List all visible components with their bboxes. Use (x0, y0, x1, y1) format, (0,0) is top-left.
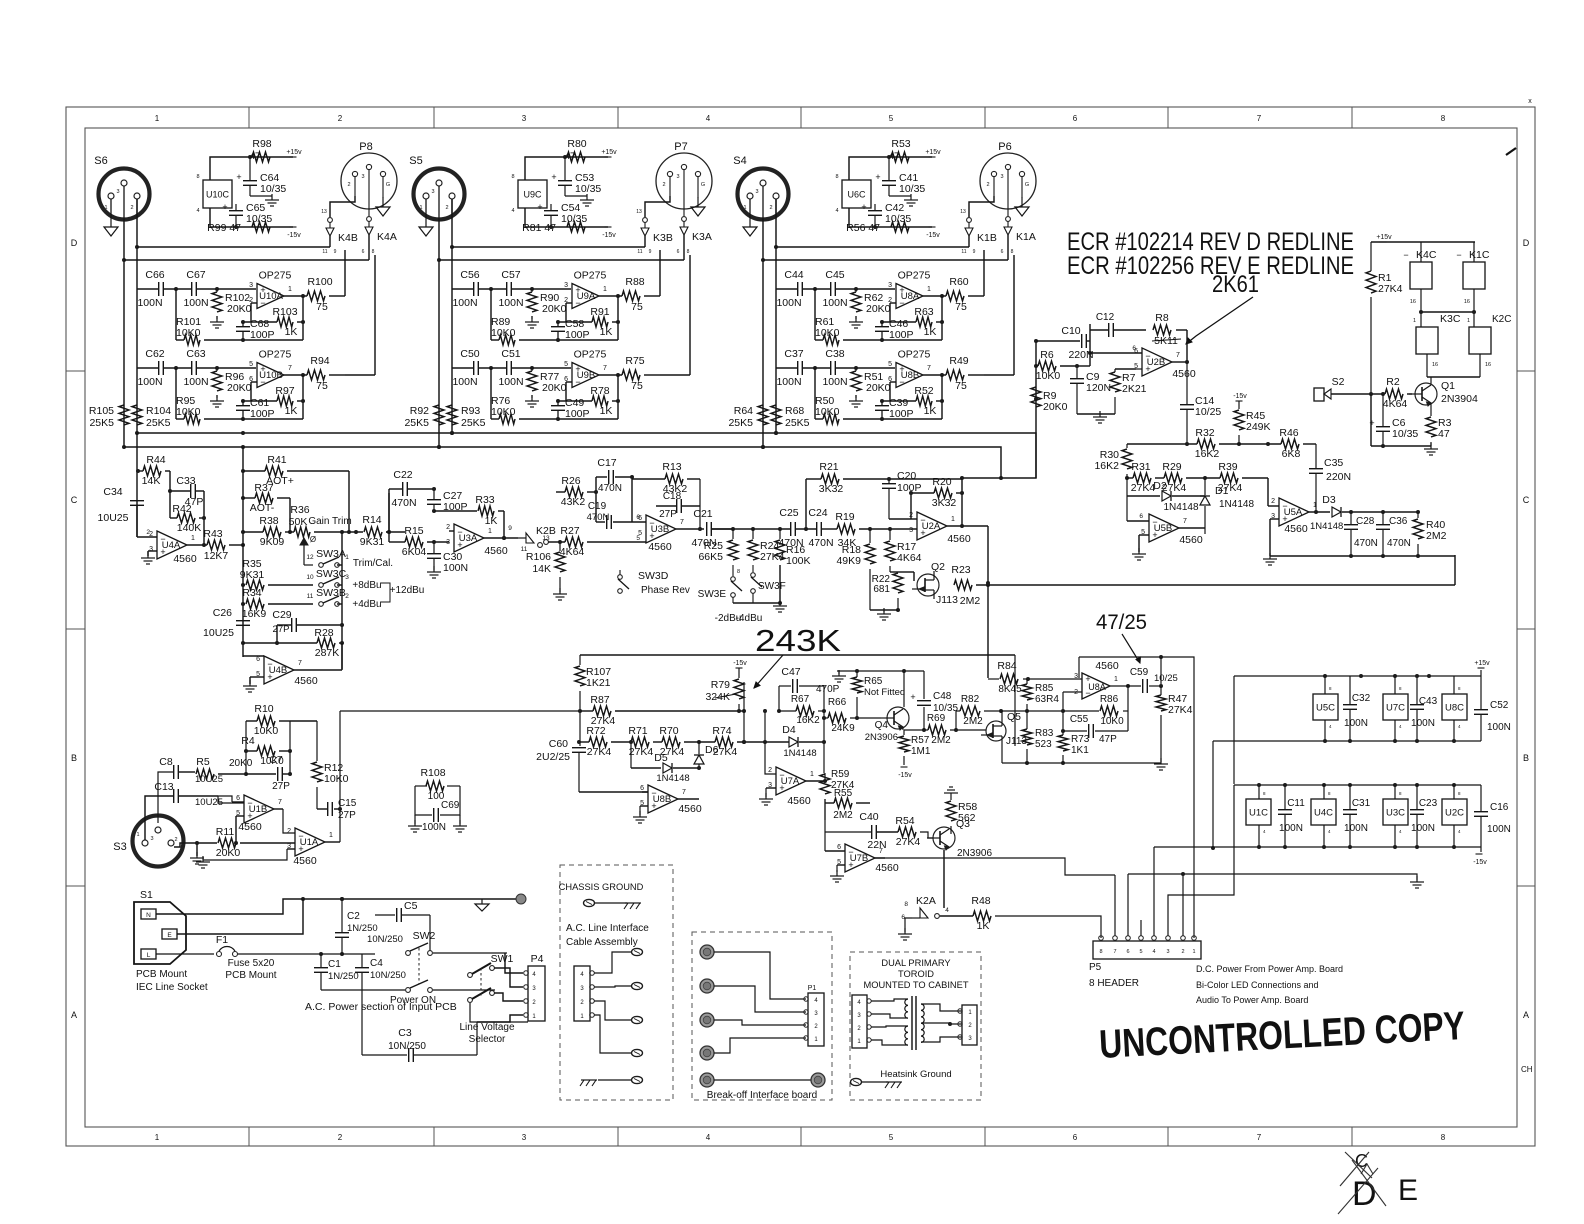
resistor R44 (142, 454, 166, 487)
svg-text:13: 13 (321, 209, 327, 215)
resistor R39 (1218, 461, 1268, 494)
wire (890, 294, 984, 340)
resistor R59 (820, 769, 855, 794)
resistor R64 (728, 405, 768, 429)
wire (1179, 527, 1205, 529)
capacitor C5 (367, 900, 430, 945)
svg-text:1K: 1K (285, 326, 298, 338)
svg-text:6: 6 (640, 785, 644, 792)
resistor R55 (0, 0, 1, 1)
wire (825, 831, 871, 833)
svg-text:22N: 22N (867, 839, 886, 851)
svg-text:U1B: U1B (249, 804, 267, 815)
svg-text:2M2: 2M2 (1426, 530, 1447, 542)
switch SW2 (390, 930, 436, 1006)
svg-text:2: 2 (445, 205, 448, 211)
svg-text:R88: R88 (625, 276, 644, 288)
svg-text:8: 8 (372, 249, 375, 255)
svg-text:100P: 100P (889, 408, 914, 420)
resistor R73 (1058, 734, 1090, 763)
resistor R2 (1369, 376, 1412, 410)
capacitor C27 (427, 487, 468, 513)
svg-text:R52: R52 (914, 385, 933, 397)
ground (830, 870, 844, 882)
svg-text:1N/250: 1N/250 (347, 923, 378, 934)
resistor R96 (212, 368, 252, 394)
relay coil K2C (1469, 314, 1511, 354)
svg-text:50K: 50K (289, 516, 308, 528)
wire (432, 540, 436, 544)
wire (1371, 394, 1431, 448)
svg-text:2: 2 (338, 1133, 343, 1142)
wire (814, 368, 816, 419)
wire (1383, 394, 1431, 426)
op-amp U10B (249, 349, 292, 388)
svg-text:100N: 100N (1411, 718, 1435, 729)
wire (156, 953, 214, 955)
svg-text:49K9: 49K9 (836, 555, 861, 567)
svg-text:+12dBu: +12dBu (390, 585, 425, 596)
svg-text:4: 4 (1152, 949, 1155, 955)
resistor R45 (1233, 393, 1270, 446)
svg-text:R21: R21 (819, 461, 838, 473)
svg-text:25K5: 25K5 (461, 417, 486, 429)
svg-text:R4: R4 (241, 735, 255, 747)
wire (187, 543, 207, 547)
svg-text:R71: R71 (628, 725, 647, 737)
svg-text:R74: R74 (712, 725, 731, 737)
wire (983, 250, 985, 296)
wire (203, 849, 295, 860)
ground (944, 787, 958, 793)
svg-text:2: 2 (174, 837, 177, 843)
capacitor C37 (776, 348, 803, 388)
ic U6C (835, 174, 871, 214)
svg-text:100N: 100N (822, 376, 847, 388)
svg-text:C21: C21 (693, 508, 712, 520)
svg-text:8: 8 (1441, 1133, 1446, 1142)
svg-text:R104: R104 (146, 405, 171, 417)
svg-text:R85: R85 (1035, 683, 1054, 694)
svg-text:R65: R65 (864, 676, 883, 687)
wire (386, 530, 405, 534)
wire (659, 250, 661, 296)
svg-text:25K5: 25K5 (89, 417, 114, 429)
svg-text:R11: R11 (216, 826, 235, 838)
svg-text:10N/250: 10N/250 (367, 934, 403, 945)
capacitor C53 (551, 157, 601, 196)
svg-text:R14: R14 (362, 514, 381, 526)
svg-text:R70: R70 (659, 725, 678, 737)
ic U7C (1383, 676, 1408, 741)
ground (565, 194, 594, 206)
svg-text:100N: 100N (183, 376, 208, 388)
capacitor C62 (137, 348, 164, 388)
svg-text:P5: P5 (1089, 962, 1102, 973)
wire (0, 0, 1, 1)
svg-text:U1A: U1A (300, 837, 319, 848)
svg-text:R69: R69 (927, 713, 946, 724)
svg-text:3: 3 (522, 1133, 527, 1142)
svg-text:10/35: 10/35 (575, 183, 601, 195)
svg-text:27K4: 27K4 (1168, 704, 1193, 716)
ground (210, 316, 224, 328)
wire (1268, 506, 1279, 556)
connector P4 (524, 953, 545, 1021)
svg-text:7: 7 (1257, 114, 1262, 123)
capacitor C17 (596, 457, 632, 494)
svg-text:2: 2 (986, 182, 989, 188)
label P5 8 HEADER (1089, 962, 1139, 989)
capacitor C58 (551, 318, 590, 341)
chassis ground (862, 1082, 902, 1088)
svg-text:100N: 100N (776, 376, 801, 388)
svg-text:287K: 287K (315, 647, 340, 659)
svg-text:1N4148: 1N4148 (1163, 502, 1198, 513)
svg-text:3: 3 (522, 114, 527, 123)
capacitor C31 (1343, 785, 1371, 847)
svg-text:140K: 140K (177, 522, 202, 534)
svg-text:20K0: 20K0 (542, 382, 567, 394)
relay contact K4A (362, 217, 397, 255)
wire +15 rail (1234, 674, 1481, 784)
svg-text:4: 4 (511, 208, 514, 214)
wire (909, 491, 917, 519)
resistor R1 (1366, 271, 1403, 394)
svg-text:R38: R38 (259, 515, 278, 527)
svg-text:Cable Assembly: Cable Assembly (566, 937, 638, 948)
wire bus (124, 445, 1001, 478)
svg-text:1: 1 (136, 832, 139, 838)
svg-text:3K32: 3K32 (932, 497, 957, 509)
svg-text:3: 3 (361, 174, 364, 180)
capacitor C15 (317, 798, 357, 821)
ground (525, 395, 539, 407)
resistor R42 (172, 503, 201, 534)
svg-text:14K: 14K (142, 475, 161, 487)
svg-text:C11: C11 (1287, 798, 1305, 809)
svg-text:100P: 100P (565, 408, 590, 420)
chassis ground assembly box (560, 865, 673, 1100)
ground (141, 551, 157, 564)
svg-text:R41: R41 (267, 454, 286, 466)
svg-text:U1C: U1C (1249, 808, 1268, 819)
op-amp U10A (249, 270, 292, 309)
svg-text:U5C: U5C (1316, 703, 1335, 714)
svg-text:G: G (1025, 182, 1029, 188)
ground (1424, 443, 1438, 455)
svg-text:C47: C47 (781, 666, 800, 678)
resistor R82 (956, 694, 1063, 730)
svg-text:7: 7 (298, 660, 302, 667)
svg-text:1K1: 1K1 (1071, 745, 1089, 756)
svg-text:R29: R29 (1162, 461, 1181, 473)
svg-text:7: 7 (278, 799, 282, 806)
svg-text:4560: 4560 (787, 795, 811, 807)
wire (175, 289, 177, 340)
capacitor C39 (875, 397, 914, 420)
ground (773, 600, 787, 612)
svg-text:2: 2 (769, 205, 772, 211)
wire (556, 477, 598, 522)
svg-text:10U25: 10U25 (98, 512, 129, 524)
wire (1127, 496, 1149, 521)
resistor R4 (241, 735, 292, 767)
svg-text:C4: C4 (370, 958, 383, 969)
svg-text:U4B: U4B (269, 665, 287, 676)
svg-text:+: + (236, 172, 241, 182)
wire (1128, 874, 1417, 880)
svg-text:470N: 470N (778, 537, 803, 549)
svg-text:470N: 470N (1354, 538, 1378, 549)
wire (814, 289, 816, 340)
svg-text:2: 2 (1181, 949, 1184, 955)
diode D1 (1200, 478, 1254, 534)
wire (676, 479, 704, 531)
svg-text:10N/250: 10N/250 (370, 970, 406, 981)
svg-text:10: 10 (306, 574, 314, 581)
resistor R6 (1036, 349, 1090, 382)
svg-text:27K4: 27K4 (629, 746, 654, 758)
capacitor C45 (822, 269, 847, 309)
resistor R72 (577, 725, 631, 758)
resistor R85 (1022, 679, 1059, 711)
connector P1 (804, 985, 824, 1046)
capacitor C52 (1474, 676, 1511, 741)
svg-text:P6: P6 (998, 141, 1011, 153)
svg-text:1K: 1K (485, 515, 498, 527)
svg-text:R80: R80 (567, 138, 586, 150)
svg-text:C28: C28 (1356, 516, 1375, 527)
resistor R51 (851, 368, 891, 394)
svg-text:R37: R37 (254, 482, 273, 494)
op-amp U4A (149, 531, 197, 565)
relay contact K1A (1001, 217, 1036, 255)
svg-text:R56 47: R56 47 (846, 222, 880, 234)
resistor R12 (290, 721, 349, 809)
relay contact K1B (960, 209, 997, 255)
wire (776, 366, 895, 370)
ground (475, 899, 489, 911)
svg-text:25K5: 25K5 (728, 417, 753, 429)
svg-text:47: 47 (889, 151, 900, 162)
svg-text:U3B: U3B (651, 524, 669, 535)
resistor R19 (835, 511, 917, 549)
capacitor C33 (176, 475, 203, 508)
resistor R35 (240, 558, 265, 590)
svg-text:R26: R26 (561, 475, 580, 487)
resistor R57 (898, 730, 931, 779)
svg-text:5: 5 (889, 114, 894, 123)
svg-text:3: 3 (676, 174, 679, 180)
svg-text:4: 4 (945, 907, 949, 914)
svg-text:A.C. Power section of Input PC: A.C. Power section of Input PCB (305, 1001, 457, 1013)
svg-text:−: − (1456, 250, 1461, 260)
svg-text:G: G (386, 182, 390, 188)
resistor R7 (1110, 369, 1147, 414)
capacitor C32 (1343, 676, 1371, 741)
ground (849, 316, 863, 328)
svg-text:10/35: 10/35 (1392, 428, 1418, 440)
svg-text:SW3F: SW3F (758, 581, 786, 592)
svg-text:6: 6 (362, 249, 365, 255)
svg-text:R91: R91 (590, 306, 609, 318)
capacitor C2 (335, 897, 378, 954)
svg-text:1K: 1K (600, 326, 613, 338)
svg-text:R97: R97 (275, 385, 294, 397)
resistor R69 (927, 713, 986, 746)
resistor R62 (851, 289, 891, 315)
svg-text:1: 1 (810, 771, 814, 778)
svg-text:100N: 100N (443, 562, 468, 574)
svg-text:1: 1 (329, 832, 333, 839)
svg-text:75: 75 (955, 380, 967, 392)
svg-text:C43: C43 (1419, 696, 1438, 707)
capacitor C1 (314, 954, 359, 990)
svg-text:2: 2 (338, 114, 343, 123)
wire (475, 953, 507, 990)
resistor R23 (951, 564, 980, 607)
relay contact K3B (636, 209, 673, 255)
svg-text:C13: C13 (154, 781, 173, 793)
svg-text:R72: R72 (586, 725, 605, 737)
svg-text:47: 47 (250, 151, 261, 162)
svg-text:R106: R106 (526, 551, 551, 563)
svg-text:C16: C16 (1490, 802, 1509, 813)
svg-text:4560: 4560 (648, 541, 672, 553)
svg-text:U9B: U9B (577, 370, 595, 381)
svg-text:1N4148: 1N4148 (1219, 499, 1254, 510)
wire (137, 287, 256, 291)
wire (976, 555, 1455, 585)
svg-text:2M2: 2M2 (931, 735, 951, 746)
-15v power (287, 227, 301, 239)
svg-text:R60: R60 (949, 276, 968, 288)
op-amp U9B (564, 349, 607, 388)
svg-text:R108: R108 (420, 767, 445, 779)
svg-text:R33: R33 (475, 494, 494, 506)
wire (177, 899, 303, 934)
svg-text:K4B: K4B (338, 232, 358, 244)
ground (759, 793, 773, 805)
wire (1077, 413, 1115, 415)
svg-text:100P: 100P (565, 329, 590, 341)
svg-text:U5B: U5B (1154, 523, 1172, 534)
resistor R38 (243, 515, 284, 548)
capacitor C54 (537, 202, 587, 227)
svg-text:C48: C48 (933, 691, 952, 702)
svg-text:7: 7 (1113, 949, 1116, 955)
resistor R14 (360, 514, 385, 548)
svg-text:C31: C31 (1352, 798, 1371, 809)
svg-text:11: 11 (307, 593, 314, 600)
wire (386, 493, 391, 534)
relay contact K2B (508, 525, 556, 553)
wire (494, 968, 523, 1001)
pad (700, 979, 714, 993)
svg-text:C59: C59 (1130, 667, 1149, 678)
svg-text:R36: R36 (290, 504, 309, 516)
svg-text:D2: D2 (1153, 480, 1167, 492)
svg-text:11: 11 (637, 249, 642, 255)
svg-text:1: 1 (104, 205, 107, 211)
svg-text:100K: 100K (786, 555, 811, 567)
resistor R8 (1152, 312, 1187, 362)
svg-text:47: 47 (1438, 428, 1450, 440)
capacitor C20 (882, 470, 922, 519)
svg-text:7: 7 (680, 519, 684, 526)
connector S2 (1314, 376, 1384, 401)
svg-text:10N/250: 10N/250 (388, 1041, 426, 1052)
svg-text:1K21: 1K21 (586, 677, 611, 689)
svg-text:4560: 4560 (678, 803, 702, 815)
svg-text:100P: 100P (250, 329, 275, 341)
op-amp U8B (888, 349, 931, 388)
resistor R88 (622, 276, 645, 313)
svg-text:U8A: U8A (1088, 682, 1106, 692)
ground (196, 856, 210, 868)
svg-text:Selector: Selector (469, 1034, 506, 1045)
capacitor C11 (1278, 785, 1305, 847)
svg-text:2: 2 (149, 531, 153, 538)
pad (700, 1046, 714, 1060)
text UNCONTROLLED COPY stamp (1098, 1004, 1466, 1067)
svg-text:1: 1 (927, 286, 931, 293)
svg-text:47/25: 47/25 (1096, 611, 1147, 634)
svg-text:R87: R87 (590, 694, 609, 706)
wire (362, 953, 475, 990)
svg-text:U9C: U9C (523, 190, 542, 200)
wire (437, 199, 454, 449)
wire (277, 498, 292, 534)
wire (477, 1015, 523, 1022)
capacitor C29 (272, 609, 344, 643)
svg-text:C56: C56 (460, 269, 479, 281)
svg-text:8: 8 (1011, 249, 1014, 255)
op-amp U4B (256, 656, 318, 687)
resistor R13 (632, 461, 700, 495)
op-amp U8A (888, 270, 931, 309)
capacitor C18 (656, 491, 700, 520)
svg-text:D: D (71, 238, 78, 248)
svg-text:13: 13 (636, 209, 642, 215)
switch SW3F (736, 565, 786, 624)
svg-text:A: A (1523, 1010, 1529, 1020)
svg-text:U7B: U7B (850, 853, 868, 864)
svg-text:75: 75 (631, 380, 643, 392)
switch SW3E (698, 565, 742, 624)
relay coil K3C (1416, 313, 1461, 354)
connector S1 IEC line socket (134, 889, 186, 964)
-15v power (926, 227, 940, 239)
svg-text:K3B: K3B (653, 232, 673, 244)
wire (579, 791, 648, 793)
capacitor C68 (236, 318, 275, 341)
svg-text:K4A: K4A (377, 231, 397, 243)
svg-text:R2: R2 (1386, 376, 1400, 388)
switch SW3C (268, 568, 382, 591)
wire (175, 368, 177, 419)
resistor R65 (852, 671, 905, 720)
wire (525, 155, 608, 229)
resistor R17 (885, 529, 922, 572)
svg-text:3: 3 (1000, 174, 1003, 180)
wire (234, 816, 244, 845)
svg-text:A.C. Line Interface: A.C. Line Interface (566, 923, 649, 934)
svg-text:CH: CH (1521, 1065, 1533, 1074)
svg-text:R59: R59 (831, 769, 850, 780)
svg-text:3: 3 (249, 282, 253, 289)
